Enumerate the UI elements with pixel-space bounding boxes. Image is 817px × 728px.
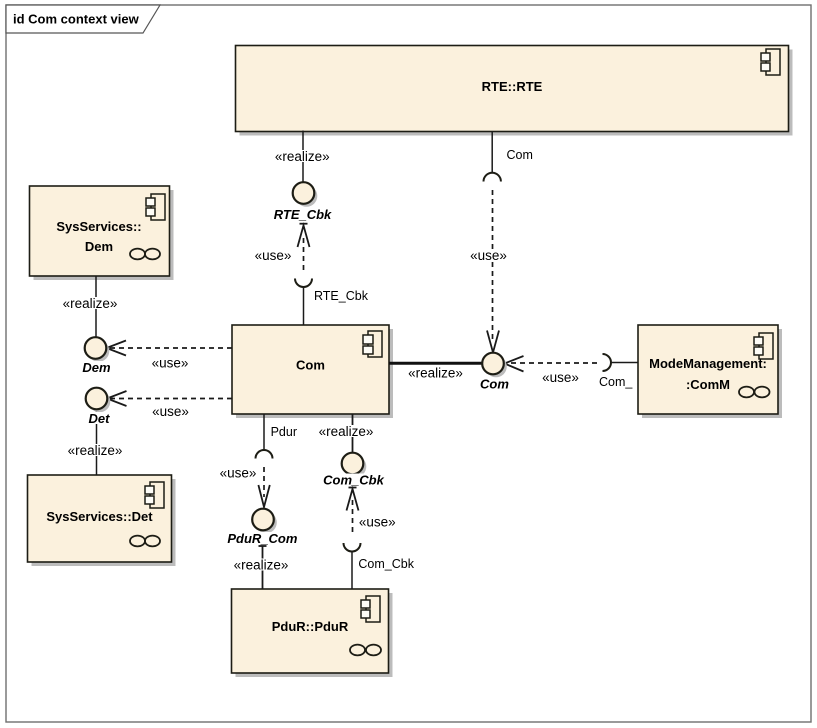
svg-text:id Com context view: id Com context view [13, 12, 140, 27]
wire socket stem Com Pdur [263, 414, 265, 451]
socket RTE_Cbk (open up) [295, 279, 312, 288]
wire realize PduR_Com to PduR box [259, 546, 267, 589]
label realize RTE [273, 149, 332, 164]
svg-text:RTE_Cbk: RTE_Cbk [274, 207, 332, 222]
component Com [232, 325, 393, 418]
wire realize Det ball to Det box [96, 410, 98, 476]
wire socket stem RTE Com [491, 131, 493, 173]
svg-text:Pdur: Pdur [271, 425, 297, 439]
svg-text:RTE::RTE: RTE::RTE [482, 79, 543, 94]
svg-text:«realize»: «realize» [408, 366, 463, 381]
svg-text:PduR::PduR: PduR::PduR [272, 619, 349, 634]
wire use dashed Com to Dem ball [108, 347, 232, 349]
wire use dashed Com to RTE_Cbk ball [303, 236, 305, 270]
label Det ball [84, 411, 114, 426]
wire realize thick Com to Com ball [389, 362, 484, 365]
label use Det [152, 404, 190, 419]
arrowhead use at Det ball [107, 391, 127, 406]
svg-text:«realize»: «realize» [234, 558, 289, 573]
label Pdur [268, 425, 300, 439]
svg-text:Com: Com [507, 148, 533, 162]
label use Com_Cbk [358, 515, 396, 530]
svg-text:«use»: «use» [152, 356, 189, 371]
label realize Det [65, 443, 124, 458]
svg-text:«use»: «use» [152, 404, 189, 419]
svg-text:RTE_Cbk: RTE_Cbk [314, 289, 369, 303]
svg-text::ComM: :ComM [686, 377, 730, 392]
svg-text:Com: Com [480, 377, 509, 392]
label Com ball [478, 377, 511, 392]
interface ball Com_Cbk [342, 453, 367, 478]
socket Pdur (open down) [256, 450, 273, 458]
arrowhead use up at Com_Cbk [347, 488, 359, 511]
interface ball RTE_Cbk [293, 182, 318, 207]
label PduR_Com ball [226, 531, 298, 546]
svg-text:PduR_Com: PduR_Com [227, 531, 298, 546]
svg-text:Det: Det [89, 411, 111, 426]
interface ball Det [86, 388, 111, 413]
component RTE::RTE [236, 46, 793, 136]
svg-text:«use»: «use» [220, 466, 257, 481]
label RTE_Cbk socket [314, 289, 369, 303]
frame tab id Com context view [6, 5, 160, 33]
label Com socket [505, 148, 537, 162]
arrowhead use up at RTE_Cbk [298, 224, 310, 247]
svg-text:ModeManagement:: ModeManagement: [649, 356, 767, 371]
svg-text:Com: Com [296, 358, 325, 373]
component ModeManagement::ComM [638, 325, 782, 418]
wire use dashed Com_Cbk socket to Com_Cbk ball [352, 500, 354, 535]
wire realize RTE to RTE_Cbk [302, 131, 304, 184]
svg-text:Com_Cbk: Com_Cbk [358, 557, 414, 571]
component SysServices::Det [28, 475, 176, 566]
wire socket stem ModeManagement Com_ [611, 362, 638, 364]
component PduR::PduR [232, 589, 393, 677]
arrowhead use down at PduR_Com ball [258, 485, 269, 507]
wire socket stem Com_Cbk to PduR box [351, 552, 353, 590]
socket Com_ (open left) [603, 354, 612, 371]
arrowhead use at Dem ball [107, 341, 127, 356]
label realize Com thick [406, 366, 465, 381]
svg-text:«realize»: «realize» [319, 424, 374, 439]
wire use dashed RTE to Com ball [492, 190, 494, 341]
svg-text:«use»: «use» [470, 248, 507, 263]
label Com_ socket [599, 375, 633, 389]
svg-text:«use»: «use» [255, 248, 292, 263]
svg-text:Com_: Com_ [599, 375, 633, 389]
wire realize Com to Com_Cbk ball [352, 414, 354, 454]
component SysServices::Dem [30, 186, 174, 280]
socket Com (open down) [484, 173, 501, 182]
wire use dashed Com to Det ball [109, 398, 232, 400]
label Com_Cbk ball [322, 473, 385, 488]
label use RTE_Cbk [254, 248, 292, 263]
label Com_Cbk socket [358, 557, 414, 571]
arrowhead use down at Com ball [487, 331, 499, 353]
interface ball Dem [85, 337, 110, 362]
svg-text:«realize»: «realize» [63, 296, 118, 311]
label use Dem [151, 356, 189, 371]
wire use dashed ModeManagement to Com ball [507, 362, 597, 364]
svg-text:«realize»: «realize» [275, 149, 330, 164]
svg-text:Dem: Dem [85, 239, 113, 254]
svg-text:Dem: Dem [82, 360, 111, 375]
label use ModeManagement [542, 370, 580, 385]
label realize Dem [60, 296, 119, 311]
svg-text:«use»: «use» [359, 515, 396, 530]
label realize PduR_Com [232, 558, 291, 573]
wire use dashed Pdur socket to PduR_Com ball [263, 467, 265, 497]
socket Com_Cbk (open up) [344, 543, 361, 552]
svg-text:SysServices::Det: SysServices::Det [46, 509, 153, 524]
interface ball PduR_Com [252, 509, 277, 534]
label use Com top [470, 248, 508, 263]
wire socket stem Com RTE_Cbk [303, 287, 305, 325]
label realize Com_Cbk [317, 424, 376, 439]
svg-text:«realize»: «realize» [68, 443, 123, 458]
arrowhead use at Com ball right [505, 356, 524, 372]
svg-text:«use»: «use» [542, 370, 579, 385]
label RTE_Cbk ball [272, 207, 333, 222]
interface ball Com [482, 353, 507, 378]
label use Pdur [219, 466, 257, 481]
svg-text:SysServices::: SysServices:: [56, 219, 141, 234]
label Dem ball [80, 360, 113, 375]
svg-text:Com_Cbk: Com_Cbk [323, 473, 384, 488]
wire realize Dem box to Dem ball [95, 276, 97, 338]
